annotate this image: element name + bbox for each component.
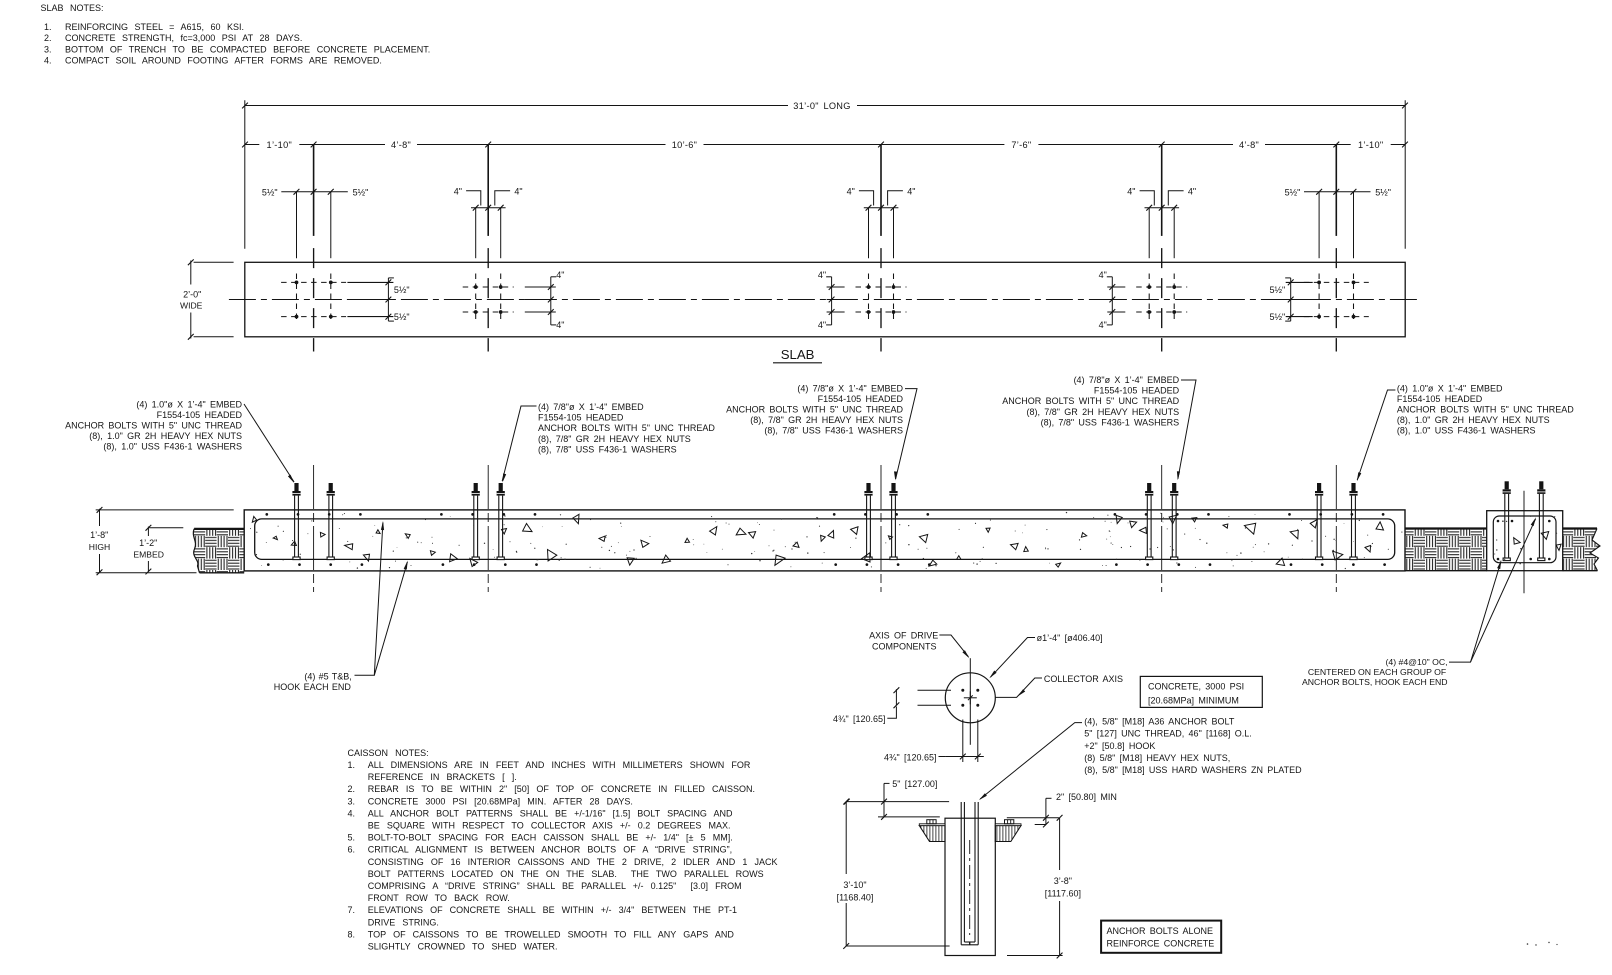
svg-text:1.: 1. [348, 760, 356, 770]
svg-text:(8), 5/8" [M18] USS HARD WASHE: (8), 5/8" [M18] USS HARD WASHERS ZN PLAT… [1084, 765, 1302, 775]
svg-text:CONCRETE STRENGTH, fc=3,000 PS: CONCRETE STRENGTH, fc=3,000 PSI AT 28 DA… [65, 33, 302, 43]
svg-text:1’-10": 1’-10" [267, 140, 293, 150]
svg-text:F1554-105 HEADED: F1554-105 HEADED [157, 410, 243, 420]
svg-text:5½": 5½" [353, 187, 369, 197]
svg-text:3’-8": 3’-8" [1054, 876, 1072, 886]
svg-text:REINFORCING STEEL = A615, 60 K: REINFORCING STEEL = A615, 60 KSI. [65, 22, 244, 32]
svg-text:ø1’-4" [ø406.40]: ø1’-4" [ø406.40] [1037, 633, 1103, 643]
svg-text:1’-2": 1’-2" [139, 538, 157, 548]
svg-text:[20.68MPa] MINIMUM: [20.68MPa] MINIMUM [1148, 695, 1239, 705]
svg-text:(8), 1.0" GR 2H HEAVY HEX NUTS: (8), 1.0" GR 2H HEAVY HEX NUTS [89, 431, 242, 441]
svg-text:COLLECTOR AXIS: COLLECTOR AXIS [1044, 674, 1123, 684]
svg-text:ANCHOR BOLTS, HOOK EACH END: ANCHOR BOLTS, HOOK EACH END [1302, 677, 1448, 687]
svg-text:4.: 4. [44, 56, 52, 66]
svg-text:4": 4" [847, 186, 855, 196]
svg-text:F1554-105 HEADED: F1554-105 HEADED [1094, 386, 1180, 396]
svg-text:(8), 7/8" GR 2H HEAVY HEX NUTS: (8), 7/8" GR 2H HEAVY HEX NUTS [538, 434, 691, 444]
svg-text:(4) 7/8"ø X 1’-4" EMBED: (4) 7/8"ø X 1’-4" EMBED [538, 402, 644, 412]
svg-text:ALL ANCHOR BOLT PATTERNS SHALL: ALL ANCHOR BOLT PATTERNS SHALL BE +/-1/1… [368, 808, 733, 818]
svg-text:5½": 5½" [394, 285, 410, 295]
svg-text:4": 4" [556, 270, 564, 280]
svg-text:COMPONENTS: COMPONENTS [872, 641, 937, 651]
svg-text:2" [50.80] MIN: 2" [50.80] MIN [1056, 792, 1117, 802]
svg-text:4": 4" [1099, 270, 1107, 280]
svg-text:+2" [50.8] HOOK: +2" [50.8] HOOK [1084, 741, 1155, 751]
svg-text:SLAB NOTES:: SLAB NOTES: [41, 3, 104, 13]
svg-text:SLAB: SLAB [781, 347, 815, 362]
svg-text:COMPACT SOIL AROUND FOOTING AF: COMPACT SOIL AROUND FOOTING AFTER FORMS … [65, 56, 382, 66]
svg-text:5" [127.00]: 5" [127.00] [892, 779, 937, 789]
svg-text:WIDE: WIDE [180, 301, 203, 311]
svg-text:ANCHOR BOLTS ALONE: ANCHOR BOLTS ALONE [1107, 926, 1213, 936]
svg-text:ANCHOR BOLTS WITH 5" UNC THREA: ANCHOR BOLTS WITH 5" UNC THREAD [726, 405, 903, 415]
svg-text:4": 4" [907, 186, 915, 196]
svg-text:5½": 5½" [1269, 312, 1285, 322]
svg-text:1’-10": 1’-10" [1358, 140, 1384, 150]
svg-text:ANCHOR BOLTS WITH 5" UNC THREA: ANCHOR BOLTS WITH 5" UNC THREAD [1002, 396, 1179, 406]
svg-text:5" [127] UNC THREAD, 46" [1168: 5" [127] UNC THREAD, 46" [1168] O.L. [1084, 729, 1251, 739]
svg-text:ANCHOR BOLTS WITH 5" UNC THREA: ANCHOR BOLTS WITH 5" UNC THREAD [538, 423, 715, 433]
svg-text:4¾" [120.65]: 4¾" [120.65] [884, 752, 937, 762]
svg-text:2.: 2. [44, 33, 52, 43]
svg-text:COMPRISING A “DRIVE STRING” SH: COMPRISING A “DRIVE STRING” SHALL BE PAR… [368, 881, 742, 891]
svg-text:(8) 5/8" [M18] HEAVY HEX NUTS,: (8) 5/8" [M18] HEAVY HEX NUTS, [1084, 753, 1230, 763]
svg-text:4’-8": 4’-8" [1239, 140, 1259, 150]
svg-text:2’-0": 2’-0" [183, 290, 201, 300]
svg-text:4": 4" [454, 186, 462, 196]
svg-text:CAISSON NOTES:: CAISSON NOTES: [348, 748, 429, 758]
svg-text:F1554-105 HEADED: F1554-105 HEADED [818, 394, 904, 404]
svg-text:4": 4" [514, 186, 522, 196]
svg-text:(8), 7/8" USS F436-1 WASHERS: (8), 7/8" USS F436-1 WASHERS [764, 426, 903, 436]
svg-text:HIGH: HIGH [89, 542, 110, 552]
svg-text:TOP OF CAISSONS TO BE TROWELLE: TOP OF CAISSONS TO BE TROWELLED SMOOTH T… [368, 929, 735, 939]
svg-text:(4) #4@10" OC,: (4) #4@10" OC, [1385, 657, 1447, 667]
svg-text:BOLT PATTERNS LOCATED ON THE O: BOLT PATTERNS LOCATED ON THE ON THE SLAB… [368, 869, 764, 879]
svg-text:CONCRETE 3000 PSI [20.68MPa] M: CONCRETE 3000 PSI [20.68MPa] MIN. AFTER … [368, 796, 633, 806]
svg-text:4": 4" [1099, 320, 1107, 330]
svg-text:(8), 7/8" USS F436-1 WASHERS: (8), 7/8" USS F436-1 WASHERS [1041, 417, 1180, 427]
svg-text:3.: 3. [44, 44, 52, 54]
svg-text:4¾" [120.65]: 4¾" [120.65] [833, 714, 886, 724]
svg-text:8.: 8. [348, 929, 356, 939]
svg-text:[1168.40]: [1168.40] [837, 892, 874, 902]
svg-text:CONSISTING OF 16 INTERIOR CAIS: CONSISTING OF 16 INTERIOR CAISSONS AND T… [368, 857, 778, 867]
svg-text:BOTTOM OF TRENCH TO BE COMPACT: BOTTOM OF TRENCH TO BE COMPACTED BEFORE … [65, 44, 430, 54]
svg-text:DRIVE STRING.: DRIVE STRING. [368, 917, 439, 927]
svg-text:1’-8": 1’-8" [90, 530, 108, 540]
svg-text:5½": 5½" [1375, 187, 1391, 197]
svg-text:5½": 5½" [262, 187, 278, 197]
svg-text:(4) 1.0"ø X 1’-4" EMBED: (4) 1.0"ø X 1’-4" EMBED [1397, 383, 1503, 393]
svg-text:5½": 5½" [1285, 187, 1301, 197]
svg-text:5.: 5. [348, 833, 356, 843]
svg-text:6.: 6. [348, 845, 356, 855]
svg-text:CENTERED ON EACH GROUP OF: CENTERED ON EACH GROUP OF [1308, 667, 1446, 677]
svg-text:(4) 7/8"ø X 1’-4" EMBED: (4) 7/8"ø X 1’-4" EMBED [797, 383, 903, 393]
svg-text:3’-10": 3’-10" [843, 880, 866, 890]
svg-text:F1554-105 HEADED: F1554-105 HEADED [1397, 394, 1483, 404]
svg-text:REBAR IS TO BE WITHIN 2" [50]: REBAR IS TO BE WITHIN 2" [50] OF TOP OF … [368, 784, 755, 794]
svg-text:(4), 5/8" [M18] A36 ANCHOR BOL: (4), 5/8" [M18] A36 ANCHOR BOLT [1084, 717, 1235, 727]
svg-text:3.: 3. [348, 796, 356, 806]
svg-text:4": 4" [1127, 186, 1135, 196]
svg-text:[1117.60]: [1117.60] [1045, 889, 1081, 899]
svg-text:4": 4" [818, 320, 826, 330]
svg-text:ANCHOR BOLTS WITH 5" UNC THREA: ANCHOR BOLTS WITH 5" UNC THREAD [65, 421, 242, 431]
svg-text:(8), 7/8" GR 2H HEAVY HEX NUTS: (8), 7/8" GR 2H HEAVY HEX NUTS [1026, 407, 1179, 417]
svg-text:(8), 1.0" USS F436-1 WASHERS: (8), 1.0" USS F436-1 WASHERS [1397, 426, 1536, 436]
svg-text:1.: 1. [44, 22, 52, 32]
svg-text:(4) 7/8"ø X 1’-4" EMBED: (4) 7/8"ø X 1’-4" EMBED [1074, 375, 1180, 385]
svg-text:SLIGHTLY CROWNED TO SHED WATER: SLIGHTLY CROWNED TO SHED WATER. [368, 942, 558, 952]
svg-text:4’-8": 4’-8" [391, 140, 411, 150]
svg-text:BOLT-TO-BOLT SPACING FOR EACH: BOLT-TO-BOLT SPACING FOR EACH CAISSON SH… [368, 833, 733, 843]
svg-text:(8), 7/8" USS F436-1 WASHERS: (8), 7/8" USS F436-1 WASHERS [538, 444, 677, 454]
svg-text:BE SQUARE WITH RESPECT TO COLL: BE SQUARE WITH RESPECT TO COLLECTOR AXIS… [368, 821, 731, 831]
svg-text:4": 4" [1188, 186, 1196, 196]
svg-text:FRONT ROW TO BACK ROW.: FRONT ROW TO BACK ROW. [368, 893, 510, 903]
svg-text:4": 4" [818, 270, 826, 280]
svg-text:ELEVATIONS OF CONCRETE SHALL B: ELEVATIONS OF CONCRETE SHALL BE WITHIN +… [368, 905, 737, 915]
svg-text:CRITICAL ALIGNMENT IS BETWEEN: CRITICAL ALIGNMENT IS BETWEEN ANCHOR BOL… [368, 845, 732, 855]
svg-text:(8), 7/8" GR 2H HEAVY HEX NUTS: (8), 7/8" GR 2H HEAVY HEX NUTS [750, 415, 903, 425]
svg-text:HOOK EACH END: HOOK EACH END [274, 682, 352, 692]
svg-text:7’-6": 7’-6" [1011, 140, 1031, 150]
svg-text:31’-0" LONG: 31’-0" LONG [793, 101, 850, 111]
svg-text:5½": 5½" [1269, 285, 1285, 295]
svg-text:ANCHOR BOLTS WITH 5" UNC THREA: ANCHOR BOLTS WITH 5" UNC THREAD [1397, 405, 1574, 415]
svg-text:7.: 7. [348, 905, 356, 915]
svg-text:EMBED: EMBED [133, 550, 164, 560]
svg-text:5½": 5½" [394, 312, 410, 322]
svg-text:(8), 1.0" USS F436-1 WASHERS: (8), 1.0" USS F436-1 WASHERS [103, 442, 242, 452]
svg-text:REINFORCE CONCRETE: REINFORCE CONCRETE [1107, 938, 1215, 948]
svg-text:ALL DIMENSIONS ARE IN FEET AND: ALL DIMENSIONS ARE IN FEET AND INCHES WI… [368, 760, 751, 770]
svg-text:(8), 1.0" GR 2H HEAVY HEX NUTS: (8), 1.0" GR 2H HEAVY HEX NUTS [1397, 415, 1550, 425]
svg-text:(4) #5 T&B,: (4) #5 T&B, [304, 672, 351, 682]
svg-text:10’-6": 10’-6" [672, 140, 698, 150]
svg-text:(4) 1.0"ø X 1’-4" EMBED: (4) 1.0"ø X 1’-4" EMBED [136, 399, 242, 409]
svg-text:CONCRETE, 3000 PSI: CONCRETE, 3000 PSI [1148, 682, 1244, 692]
svg-text:AXIS OF DRIVE: AXIS OF DRIVE [869, 631, 938, 641]
svg-text:4.: 4. [348, 808, 356, 818]
svg-text:2.: 2. [348, 784, 356, 794]
svg-text:4": 4" [556, 320, 564, 330]
svg-text:F1554-105 HEADED: F1554-105 HEADED [538, 413, 624, 423]
svg-text:REFERENCE IN BRACKETS [ ].: REFERENCE IN BRACKETS [ ]. [368, 772, 517, 782]
